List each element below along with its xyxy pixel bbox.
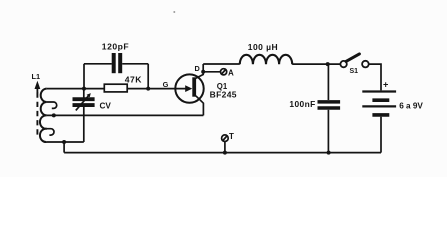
wire drop to ground bus <box>63 142 65 153</box>
node capacitor branch <box>326 62 330 66</box>
wire bottom return bus <box>64 152 381 154</box>
capacitor C1 120pF plates <box>112 53 116 73</box>
svg-text:T: T <box>229 132 234 141</box>
wire top rail to inductor <box>203 63 240 65</box>
speck (scan noise) <box>173 11 175 13</box>
wire coil tap to transistor source y=115.8 <box>47 114 204 116</box>
node capacitor bus junction <box>327 151 331 155</box>
node junction right (feedback) <box>146 87 150 91</box>
wire feedback left leg <box>83 64 85 89</box>
wire CV vertical lower <box>83 107 85 142</box>
inductor L1 turn 2 with curl <box>47 102 57 108</box>
wire terminal T stem <box>224 142 226 153</box>
node coil bottom junction <box>62 140 66 144</box>
paper background <box>0 0 447 177</box>
wire feedback top left <box>84 63 112 65</box>
core arrow (dashed adjuster) <box>36 93 38 139</box>
svg-text:A: A <box>228 68 234 77</box>
inductor L1 turn 4 with curl <box>47 129 54 135</box>
wire switch to battery corner <box>369 64 381 90</box>
svg-text:CV: CV <box>100 101 112 110</box>
switch S1 right contact <box>362 61 369 68</box>
wire feedback right leg <box>147 64 149 89</box>
svg-text:S1: S1 <box>350 68 359 75</box>
node drain branch <box>201 70 205 74</box>
wire battery to bus <box>380 117 382 153</box>
transistor Q1 gate arrow <box>185 85 192 92</box>
svg-text:120pF: 120pF <box>102 42 129 52</box>
resistor R1 47K <box>104 84 127 92</box>
svg-text:D: D <box>195 64 200 73</box>
svg-text:L1: L1 <box>32 72 41 81</box>
transistor Q1 drain lead <box>196 64 203 78</box>
capacitor CV plates <box>73 97 95 101</box>
svg-text:47K: 47K <box>125 75 142 85</box>
svg-text:100nF: 100nF <box>289 99 315 109</box>
wire coil bottom to CV y=142 <box>47 141 84 143</box>
svg-text:G: G <box>163 80 169 89</box>
svg-text:100 µH: 100 µH <box>248 42 278 52</box>
switch S1 left contact <box>340 61 346 67</box>
wire top rail to capacitor C2 <box>327 64 329 100</box>
wire drain to terminal A <box>203 71 220 73</box>
transistor Q1 source lead <box>196 96 204 116</box>
inductor L1 left scallops <box>40 89 47 142</box>
node tap junction <box>52 113 56 117</box>
wire CV vertical upper <box>83 89 85 98</box>
terminal A <box>221 69 227 75</box>
capacitor CV arrow <box>76 95 89 110</box>
terminal T <box>222 135 229 142</box>
svg-text:BF245: BF245 <box>210 90 237 100</box>
wire feedback top right <box>122 63 148 65</box>
switch S1 lever <box>346 54 359 62</box>
capacitor C2 100nF plates <box>318 100 341 104</box>
svg-text:+: + <box>383 79 388 89</box>
wire capacitor C2 to bus <box>327 110 329 153</box>
wire gate bus y=88.6 from coil to transistor gate <box>47 88 187 90</box>
transistor Q1 channel bar <box>192 77 196 96</box>
transistor Q1 circle <box>175 74 203 102</box>
inductor L2 100uH bumps <box>240 55 292 65</box>
wire inductor to switch <box>292 63 340 65</box>
battery B1 plates <box>362 90 396 92</box>
node T bus junction <box>223 151 227 155</box>
node junction left (feedback) <box>82 87 86 91</box>
svg-text:6 a 9V: 6 a 9V <box>399 102 423 111</box>
